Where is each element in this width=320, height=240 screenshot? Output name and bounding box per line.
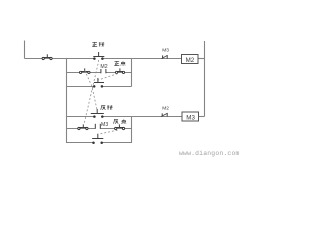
svg-text:www.diangon.com: www.diangon.com [179, 150, 240, 157]
svg-text:M2: M2 [162, 106, 169, 112]
svg-text:M3: M3 [186, 114, 195, 121]
svg-text:M2: M2 [100, 64, 107, 70]
svg-text:M3: M3 [101, 122, 108, 128]
svg-text:M3: M3 [162, 48, 169, 54]
svg-text:M2: M2 [186, 57, 195, 64]
